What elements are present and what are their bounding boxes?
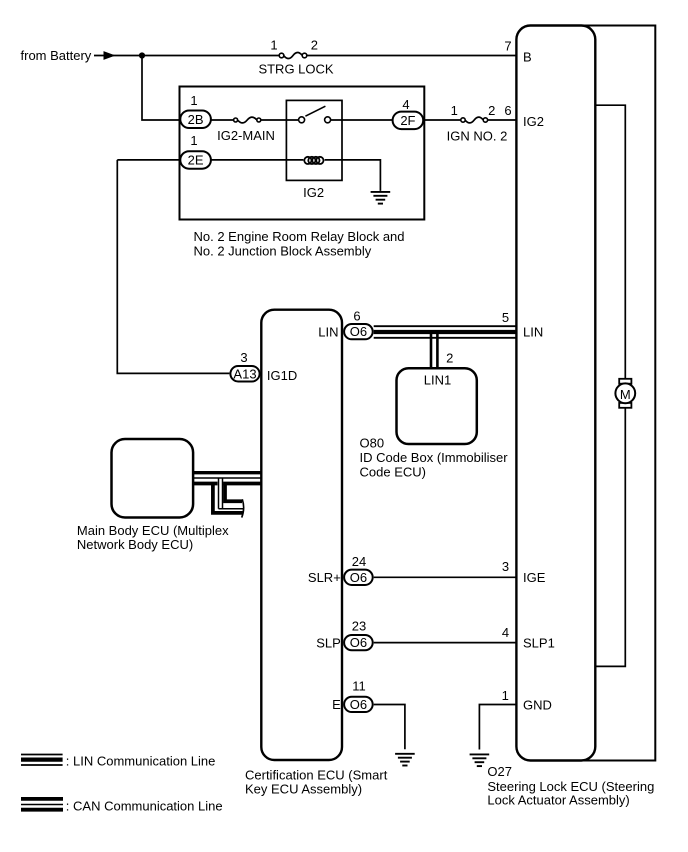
- svg-text:2: 2: [488, 103, 495, 118]
- ID Code Box: [397, 368, 477, 444]
- svg-text:LIN: LIN: [523, 325, 543, 340]
- CAN communication line to cert ECU: [193, 473, 262, 484]
- arrowhead from Battery: [104, 51, 116, 60]
- wire GND to ground O27: [479, 705, 516, 750]
- svg-text:3: 3: [240, 350, 247, 365]
- fuse STRG LOCK: [258, 38, 333, 77]
- svg-text:IGN NO. 2: IGN NO. 2: [447, 129, 508, 144]
- ground E: [395, 754, 415, 766]
- svg-text:O80: O80: [360, 435, 385, 450]
- Certification ECU body: [261, 310, 342, 760]
- svg-text:STRG LOCK: STRG LOCK: [258, 62, 333, 77]
- motor M1: [615, 379, 635, 408]
- connector O6 LIN: [344, 308, 373, 339]
- ground O27: [470, 754, 490, 766]
- relay switch arm: [305, 106, 325, 116]
- relay switch contacts: [299, 117, 305, 123]
- svg-text:6: 6: [353, 308, 360, 323]
- svg-text:IG2-MAIN: IG2-MAIN: [217, 128, 275, 143]
- svg-text:24: 24: [352, 554, 366, 569]
- svg-text:O6: O6: [350, 324, 367, 339]
- relay coil: [304, 157, 323, 164]
- svg-text:Network Body ECU): Network Body ECU): [77, 537, 193, 552]
- svg-text:2F: 2F: [400, 113, 415, 128]
- svg-text:1: 1: [502, 688, 509, 703]
- fuse IGN NO. 2: [447, 103, 508, 144]
- wire SLR+ to IGE: [374, 576, 517, 578]
- CAN branch shield hook: [213, 478, 244, 518]
- LIN communication line to pin 5: [374, 326, 517, 338]
- svg-text:2E: 2E: [188, 152, 204, 167]
- Steering Lock ECU body: [516, 26, 595, 761]
- svg-text:2: 2: [311, 38, 318, 53]
- svg-text:6: 6: [504, 103, 511, 118]
- svg-text:GND: GND: [523, 697, 552, 712]
- svg-text:7: 7: [504, 39, 511, 54]
- svg-text:11: 11: [352, 679, 366, 694]
- node junction dot: [139, 52, 145, 58]
- svg-text:: CAN Communication Line: : CAN Communication Line: [66, 798, 223, 813]
- svg-text:IGE: IGE: [523, 570, 546, 585]
- wire IG2-MAIN fuse to relay: [261, 119, 299, 121]
- svg-text:SLP: SLP: [316, 635, 341, 650]
- relay IG2 box: [286, 100, 342, 180]
- fuse IG2-MAIN: [217, 117, 275, 143]
- relay block rect No.2 Engine Room: [180, 87, 425, 220]
- svg-text:Lock Actuator Assembly): Lock Actuator Assembly): [487, 793, 629, 808]
- svg-text:B: B: [523, 49, 532, 64]
- connector 2F: [393, 97, 424, 129]
- wire battery drop to 2B: [142, 56, 180, 121]
- svg-text:: LIN Communication Line: : LIN Communication Line: [66, 754, 216, 769]
- svg-text:Steering Lock ECU (Steering: Steering Lock ECU (Steering: [487, 779, 654, 794]
- connector O6 SLP: [344, 619, 373, 651]
- wire relay switch to 2F and IGN NO.2: [331, 119, 517, 121]
- svg-text:IG2: IG2: [523, 114, 544, 129]
- legend LIN symbol: [21, 755, 63, 766]
- svg-text:Certification ECU (Smart: Certification ECU (Smart: [245, 768, 388, 783]
- svg-text:O27: O27: [487, 764, 512, 779]
- Main Body ECU box: [112, 439, 194, 518]
- svg-text:O6: O6: [350, 697, 367, 712]
- svg-text:2B: 2B: [188, 112, 204, 127]
- svg-text:SLP1: SLP1: [523, 635, 555, 650]
- wire motor loop bottom: [595, 408, 625, 667]
- svg-text:LIN: LIN: [318, 324, 338, 339]
- svg-text:SLR+: SLR+: [308, 570, 341, 585]
- svg-text:Key ECU Assembly): Key ECU Assembly): [245, 782, 362, 797]
- wire SLP to SLP1: [374, 642, 517, 644]
- svg-text:A13: A13: [233, 366, 256, 381]
- svg-text:IG1D: IG1D: [267, 368, 297, 383]
- svg-text:2: 2: [446, 350, 453, 365]
- svg-text:4: 4: [502, 625, 509, 640]
- connector O6 E: [344, 679, 373, 713]
- wire E to ground: [374, 705, 405, 750]
- outer rect of steering lock actuator assembly: [540, 26, 655, 761]
- svg-text:LIN1: LIN1: [424, 372, 451, 387]
- svg-text:Code ECU): Code ECU): [360, 464, 426, 479]
- connector O6 SLR+: [344, 554, 373, 585]
- svg-text:1: 1: [190, 133, 197, 148]
- svg-text:No. 2 Junction Block Assembly: No. 2 Junction Block Assembly: [194, 244, 372, 259]
- svg-text:23: 23: [352, 619, 366, 634]
- connector A13: [230, 350, 259, 382]
- svg-text:1: 1: [190, 93, 197, 108]
- svg-text:1: 1: [451, 103, 458, 118]
- legend CAN symbol: [21, 799, 63, 810]
- svg-text:ID Code Box (Immobiliser: ID Code Box (Immobiliser: [360, 450, 509, 465]
- LIN line vertical branch to ID code box: [430, 331, 433, 367]
- wire 2B to IG2-MAIN fuse: [211, 119, 234, 121]
- svg-text:1: 1: [270, 38, 277, 53]
- svg-text:from Battery: from Battery: [21, 48, 92, 63]
- wire 2E left drop to A13: [117, 160, 229, 374]
- svg-text:O6: O6: [350, 635, 367, 650]
- ground relay coil: [371, 192, 391, 204]
- wire 2E row through coil to ground: [117, 160, 380, 191]
- svg-text:4: 4: [402, 97, 409, 112]
- svg-text:Main Body ECU (Multiplex: Main Body ECU (Multiplex: [77, 523, 229, 538]
- wire from Battery (B line): [94, 55, 516, 57]
- svg-text:No. 2 Engine Room Relay Block: No. 2 Engine Room Relay Block and: [194, 229, 405, 244]
- svg-text:E: E: [332, 697, 341, 712]
- svg-text:O6: O6: [350, 570, 367, 585]
- svg-text:5: 5: [502, 310, 509, 325]
- svg-text:IG2: IG2: [303, 185, 324, 200]
- connector 2E: [180, 133, 211, 169]
- svg-text:3: 3: [502, 559, 509, 574]
- svg-text:M: M: [620, 387, 631, 402]
- wire motor loop top: [595, 105, 625, 379]
- connector 2B: [180, 93, 211, 128]
